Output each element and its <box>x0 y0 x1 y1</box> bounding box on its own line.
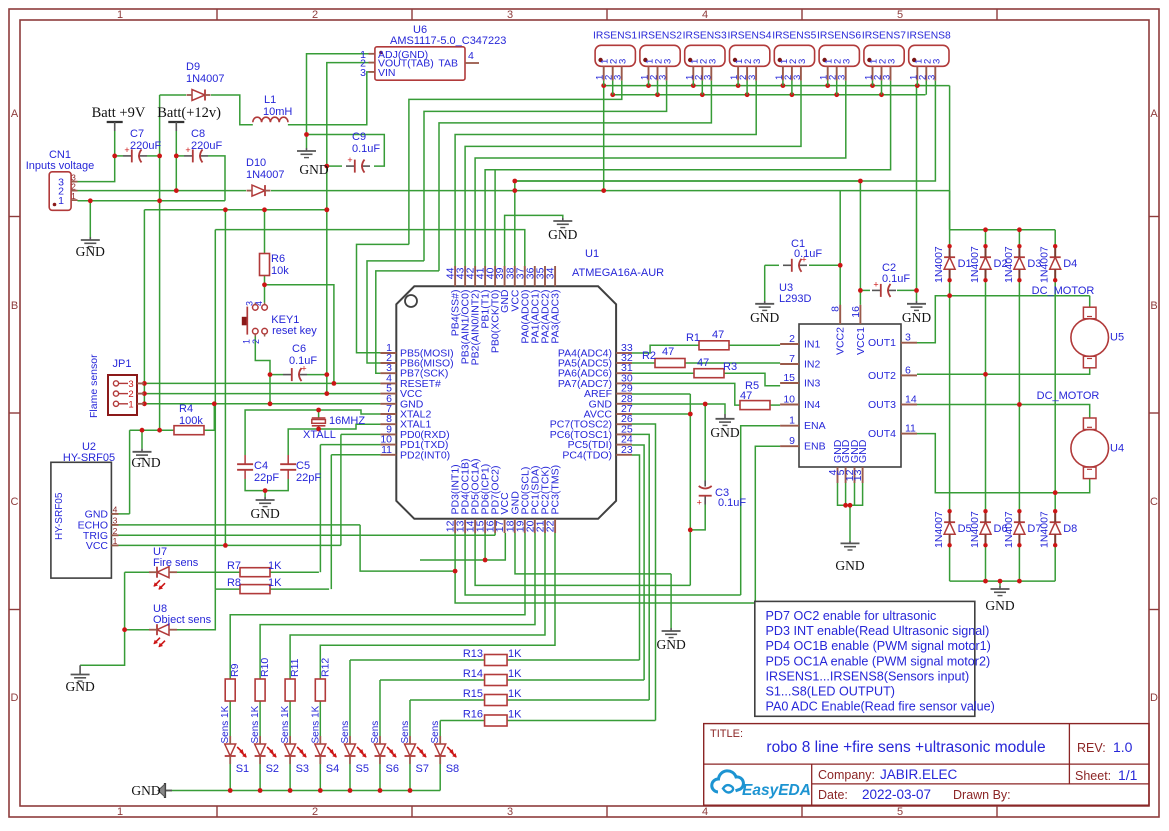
svg-text:HY-SRF05: HY-SRF05 <box>63 452 115 464</box>
svg-text:3: 3 <box>905 332 911 344</box>
svg-text:3: 3 <box>663 59 674 64</box>
svg-text:GND: GND <box>250 506 279 521</box>
svg-text:A: A <box>1150 108 1158 120</box>
svg-text:R7: R7 <box>227 560 241 572</box>
svg-text:GND: GND <box>65 679 94 694</box>
svg-text:VIN: VIN <box>378 67 396 79</box>
svg-text:PD2(INT0): PD2(INT0) <box>400 449 450 461</box>
svg-text:2: 2 <box>251 339 261 344</box>
svg-text:D9: D9 <box>186 61 200 73</box>
svg-text:IRSENS4: IRSENS4 <box>727 31 771 42</box>
svg-text:ATMEGA16A-AUR: ATMEGA16A-AUR <box>572 267 664 279</box>
svg-text:GND: GND <box>656 637 685 652</box>
svg-text:VCC: VCC <box>86 540 109 552</box>
svg-text:JABIR.ELEC: JABIR.ELEC <box>880 767 958 782</box>
svg-text:DC_MOTOR: DC_MOTOR <box>1037 390 1100 402</box>
svg-text:10k: 10k <box>271 265 289 277</box>
svg-text:TITLE:: TITLE: <box>710 728 743 740</box>
svg-text:47: 47 <box>697 357 709 369</box>
svg-text:R3: R3 <box>723 361 737 373</box>
svg-text:5: 5 <box>897 806 903 818</box>
svg-text:3: 3 <box>618 59 629 64</box>
svg-text:U5: U5 <box>1110 332 1124 344</box>
svg-text:U1: U1 <box>585 248 599 260</box>
svg-text:1K: 1K <box>508 648 522 660</box>
svg-text:R4: R4 <box>179 403 193 415</box>
svg-text:3: 3 <box>707 59 718 64</box>
svg-text:OUT1: OUT1 <box>868 337 896 349</box>
svg-text:4: 4 <box>702 9 708 21</box>
svg-text:PD7 OC2 enable for ultrasonic: PD7 OC2 enable for ultrasonic <box>766 609 937 623</box>
svg-text:R14: R14 <box>463 668 483 680</box>
svg-text:22pF: 22pF <box>254 472 279 484</box>
svg-text:1: 1 <box>128 399 133 410</box>
svg-text:Sheet:: Sheet: <box>1075 769 1111 783</box>
svg-text:S4: S4 <box>326 763 339 775</box>
svg-text:220uF: 220uF <box>130 140 161 152</box>
svg-text:11: 11 <box>905 423 916 435</box>
svg-text:R6: R6 <box>271 253 285 265</box>
svg-text:D8: D8 <box>1063 523 1077 535</box>
svg-text:robo 8 line +fire sens +ultras: robo 8 line +fire sens +ultrasonic modul… <box>766 739 1045 756</box>
svg-text:3: 3 <box>360 67 366 79</box>
svg-text:S5: S5 <box>356 763 369 775</box>
svg-text:47: 47 <box>740 390 752 402</box>
svg-text:S7: S7 <box>416 763 429 775</box>
svg-text:47: 47 <box>712 329 724 341</box>
svg-text:1K: 1K <box>508 709 522 721</box>
svg-text:1N4007: 1N4007 <box>1039 246 1051 283</box>
svg-text:PC4(TDO): PC4(TDO) <box>562 449 612 461</box>
svg-text:IRSENS1...IRSENS8(Sensors inpu: IRSENS1...IRSENS8(Sensors input) <box>766 669 970 683</box>
svg-text:IRSENS8: IRSENS8 <box>907 31 951 42</box>
svg-text:1N4007: 1N4007 <box>1003 246 1015 283</box>
svg-text:B: B <box>11 300 18 312</box>
svg-text:GND: GND <box>548 227 577 242</box>
svg-text:PA3(ADC3): PA3(ADC3) <box>550 290 562 344</box>
svg-text:3: 3 <box>747 75 758 80</box>
svg-text:Batt(+12v): Batt(+12v) <box>157 105 221 121</box>
svg-text:OUT4: OUT4 <box>868 428 896 440</box>
svg-text:XTALL: XTALL <box>303 429 336 441</box>
svg-text:47: 47 <box>662 346 674 358</box>
svg-text:2: 2 <box>789 333 795 345</box>
svg-text:OUT3: OUT3 <box>868 399 896 411</box>
svg-text:23: 23 <box>621 444 633 456</box>
svg-text:S3: S3 <box>296 763 309 775</box>
svg-text:1N4007: 1N4007 <box>969 511 981 548</box>
svg-text:IRSENS6: IRSENS6 <box>817 31 861 42</box>
svg-text:GND: GND <box>902 310 931 325</box>
svg-text:reset key: reset key <box>272 325 317 337</box>
svg-text:VCC1: VCC1 <box>855 327 867 355</box>
svg-text:GND: GND <box>835 558 864 573</box>
svg-text:+: + <box>697 498 702 508</box>
svg-text:1K: 1K <box>508 668 522 680</box>
svg-text:R1: R1 <box>686 332 700 344</box>
svg-text:9: 9 <box>789 435 795 447</box>
svg-text:13: 13 <box>852 469 864 481</box>
svg-text:+: + <box>124 145 129 155</box>
svg-text:1K: 1K <box>508 688 522 700</box>
svg-text:1: 1 <box>117 9 123 21</box>
svg-text:2: 2 <box>312 9 318 21</box>
svg-text:3: 3 <box>507 9 513 21</box>
svg-text:A: A <box>11 108 19 120</box>
svg-text:S6: S6 <box>386 763 399 775</box>
svg-text:VCC2: VCC2 <box>835 327 847 355</box>
svg-text:C: C <box>1150 496 1158 508</box>
svg-text:4: 4 <box>468 50 474 62</box>
svg-text:D10: D10 <box>246 157 266 169</box>
svg-text:U4: U4 <box>1110 442 1124 454</box>
svg-text:IRSENS7: IRSENS7 <box>862 31 906 42</box>
svg-text:IN3: IN3 <box>804 378 821 390</box>
svg-text:D: D <box>1150 692 1158 704</box>
svg-text:S2: S2 <box>266 763 279 775</box>
svg-text:C7: C7 <box>130 128 144 140</box>
svg-text:OUT2: OUT2 <box>868 370 896 382</box>
svg-text:3: 3 <box>245 301 255 306</box>
svg-text:GND: GND <box>710 425 739 440</box>
svg-text:1: 1 <box>789 415 795 427</box>
svg-text:10mH: 10mH <box>263 106 292 118</box>
svg-text:HY-SRF05: HY-SRF05 <box>54 492 65 540</box>
svg-text:IRSENS1: IRSENS1 <box>593 31 637 42</box>
svg-text:1N4007: 1N4007 <box>1003 511 1015 548</box>
svg-text:8: 8 <box>830 306 842 312</box>
svg-text:3: 3 <box>792 75 803 80</box>
svg-text:2: 2 <box>113 526 118 536</box>
svg-text:1N4007: 1N4007 <box>933 511 945 548</box>
svg-text:2022-03-07: 2022-03-07 <box>862 787 931 802</box>
svg-text:1/1: 1/1 <box>1118 767 1138 783</box>
svg-text:3: 3 <box>887 59 898 64</box>
svg-text:0.1uF: 0.1uF <box>352 143 380 155</box>
svg-text:GND: GND <box>131 783 160 798</box>
svg-text:4: 4 <box>254 301 264 306</box>
svg-text:3: 3 <box>842 59 853 64</box>
svg-text:0.1uF: 0.1uF <box>882 273 910 285</box>
svg-text:6: 6 <box>905 364 911 376</box>
svg-text:22: 22 <box>545 520 557 532</box>
svg-text:B: B <box>1150 300 1157 312</box>
svg-text:PC3(TMS): PC3(TMS) <box>550 465 562 515</box>
svg-text:C6: C6 <box>292 343 306 355</box>
svg-text:Object sens: Object sens <box>153 614 212 626</box>
svg-text:R11: R11 <box>289 658 301 677</box>
svg-text:16MHZ: 16MHZ <box>329 415 365 427</box>
svg-text:PD5 OC1A enable (PWM signal mo: PD5 OC1A enable (PWM signal motor2) <box>766 654 991 668</box>
svg-text:IN2: IN2 <box>804 359 821 371</box>
svg-text:Fire sens: Fire sens <box>153 557 199 569</box>
svg-text:Inputs voltage: Inputs voltage <box>26 160 95 172</box>
svg-text:10: 10 <box>783 394 795 406</box>
svg-text:ENA: ENA <box>804 420 826 432</box>
svg-text:REV:: REV: <box>1077 741 1106 755</box>
svg-text:ENB: ENB <box>804 441 826 453</box>
svg-text:1N4007: 1N4007 <box>933 246 945 283</box>
svg-text:C: C <box>11 496 19 508</box>
svg-text:IN4: IN4 <box>804 399 821 411</box>
svg-text:0.1uF: 0.1uF <box>289 355 317 367</box>
svg-text:IN1: IN1 <box>804 339 821 351</box>
svg-text:L1: L1 <box>264 94 276 106</box>
svg-text:4: 4 <box>702 806 708 818</box>
svg-text:7: 7 <box>789 353 795 365</box>
svg-text:EasyEDA: EasyEDA <box>742 782 811 799</box>
svg-text:1: 1 <box>242 339 252 344</box>
svg-text:3: 3 <box>926 75 937 80</box>
svg-text:4: 4 <box>113 504 118 514</box>
svg-text:Date:: Date: <box>818 788 848 802</box>
svg-text:R13: R13 <box>463 648 483 660</box>
svg-text:1: 1 <box>58 195 64 207</box>
svg-text:+: + <box>873 279 878 289</box>
svg-text:34: 34 <box>545 267 557 279</box>
svg-text:GND: GND <box>299 162 328 177</box>
svg-text:1N4007: 1N4007 <box>186 73 225 85</box>
svg-text:3: 3 <box>837 75 848 80</box>
svg-text:3: 3 <box>702 75 713 80</box>
svg-text:3: 3 <box>613 75 624 80</box>
svg-text:GND: GND <box>985 598 1014 613</box>
svg-text:1N4007: 1N4007 <box>1039 511 1051 548</box>
svg-text:3: 3 <box>752 59 763 64</box>
svg-text:PD3 INT enable(Read Ultrasonic: PD3 INT enable(Read Ultrasonic signal) <box>766 624 990 638</box>
svg-text:3: 3 <box>882 75 893 80</box>
svg-text:11: 11 <box>381 444 392 456</box>
svg-text:1.0: 1.0 <box>1113 739 1133 755</box>
svg-text:2: 2 <box>312 806 318 818</box>
svg-text:Company:: Company: <box>818 768 875 782</box>
svg-text:16: 16 <box>850 306 862 318</box>
svg-text:IRSENS5: IRSENS5 <box>772 31 816 42</box>
svg-text:3: 3 <box>931 59 942 64</box>
svg-text:R2: R2 <box>642 350 656 362</box>
svg-text:S8: S8 <box>446 763 459 775</box>
svg-text:+: + <box>347 155 352 165</box>
svg-text:14: 14 <box>905 394 917 406</box>
svg-text:GND: GND <box>131 455 160 470</box>
svg-text:Batt +9V: Batt +9V <box>92 105 146 121</box>
svg-text:D4: D4 <box>1063 258 1077 270</box>
svg-text:R8: R8 <box>227 577 241 589</box>
svg-text:1N4007: 1N4007 <box>246 169 285 181</box>
svg-text:0.1uF: 0.1uF <box>794 248 822 260</box>
svg-text:3: 3 <box>507 806 513 818</box>
svg-text:JP1: JP1 <box>113 358 132 370</box>
svg-text:R9: R9 <box>229 663 241 677</box>
svg-text:GND: GND <box>857 439 869 463</box>
svg-text:0.1uF: 0.1uF <box>718 497 746 509</box>
svg-text:C8: C8 <box>191 128 205 140</box>
svg-text:+: + <box>185 145 190 155</box>
svg-text:TAB: TAB <box>438 58 458 70</box>
svg-text:2: 2 <box>71 182 76 192</box>
svg-text:C4: C4 <box>254 460 268 472</box>
svg-text:S1: S1 <box>236 763 249 775</box>
svg-text:1: 1 <box>71 191 76 201</box>
svg-text:3: 3 <box>797 59 808 64</box>
svg-text:1: 1 <box>117 806 123 818</box>
svg-text:22pF: 22pF <box>296 472 321 484</box>
svg-text:1K: 1K <box>268 577 282 589</box>
svg-text:GND: GND <box>76 244 105 259</box>
svg-text:3: 3 <box>113 515 118 525</box>
svg-text:C9: C9 <box>352 131 366 143</box>
svg-text:D: D <box>11 692 19 704</box>
svg-text:3: 3 <box>658 75 669 80</box>
svg-text:R16: R16 <box>463 709 483 721</box>
svg-text:PD4 OC1B enable (PWM signal mo: PD4 OC1B enable (PWM signal motor1) <box>766 639 991 653</box>
svg-text:DC_MOTOR: DC_MOTOR <box>1032 285 1095 297</box>
svg-text:Drawn By:: Drawn By: <box>953 788 1011 802</box>
svg-text:C5: C5 <box>296 460 310 472</box>
svg-text:L293D: L293D <box>779 293 811 305</box>
svg-text:1: 1 <box>113 536 118 546</box>
svg-text:1K: 1K <box>268 560 282 572</box>
svg-text:S1...S8(LED OUTPUT): S1...S8(LED OUTPUT) <box>766 685 895 699</box>
svg-text:Flame sensor: Flame sensor <box>88 354 100 418</box>
svg-text:1N4007: 1N4007 <box>969 246 981 283</box>
svg-text:AMS1117-5.0_C347223: AMS1117-5.0_C347223 <box>390 35 506 47</box>
svg-text:PA0 ADC Enable(Read fire senso: PA0 ADC Enable(Read fire sensor value) <box>766 700 995 714</box>
svg-text:15: 15 <box>783 372 795 384</box>
svg-text:100k: 100k <box>179 415 203 427</box>
svg-text:220uF: 220uF <box>191 140 222 152</box>
svg-text:R15: R15 <box>463 688 483 700</box>
svg-text:R12: R12 <box>319 658 331 677</box>
svg-text:IRSENS3: IRSENS3 <box>683 31 727 42</box>
svg-text:5: 5 <box>897 9 903 21</box>
svg-text:GND: GND <box>750 310 779 325</box>
svg-text:R10: R10 <box>259 658 271 677</box>
svg-text:IRSENS2: IRSENS2 <box>638 31 682 42</box>
